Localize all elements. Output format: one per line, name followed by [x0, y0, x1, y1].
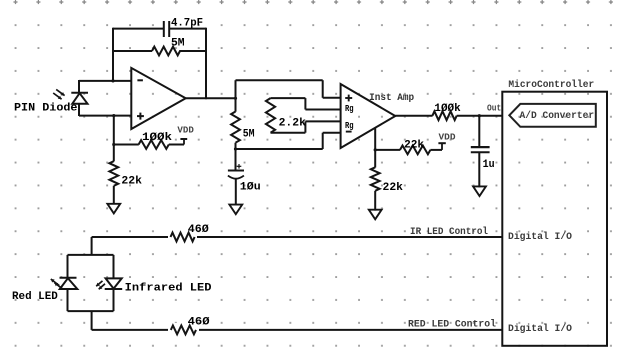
- svg-text:5M: 5M: [243, 129, 255, 141]
- svg-text:22k: 22k: [121, 176, 142, 188]
- svg-text:RED LED Control: RED LED Control: [408, 319, 496, 331]
- svg-text:Digital I/O: Digital I/O: [508, 323, 572, 335]
- svg-text:4.7pF: 4.7pF: [171, 17, 203, 29]
- svg-text:Red LED: Red LED: [12, 291, 58, 303]
- svg-text:VDD: VDD: [439, 132, 457, 142]
- svg-text:22k: 22k: [404, 139, 424, 151]
- svg-text:Rg: Rg: [345, 103, 354, 114]
- svg-text:IR LED Control: IR LED Control: [410, 226, 488, 238]
- svg-text:5M: 5M: [171, 37, 185, 49]
- svg-text:46Ø: 46Ø: [188, 224, 209, 236]
- svg-text:2.2k: 2.2k: [279, 118, 307, 130]
- svg-text:Out: Out: [487, 103, 501, 114]
- svg-text:MicroController: MicroController: [508, 79, 594, 91]
- svg-text:1ØØk: 1ØØk: [434, 103, 461, 115]
- svg-text:VDD: VDD: [177, 126, 194, 136]
- svg-text:22k: 22k: [383, 182, 404, 194]
- svg-text:Inst Amp: Inst Amp: [369, 93, 414, 104]
- svg-text:1ØØk: 1ØØk: [142, 132, 172, 144]
- svg-text:1Øu: 1Øu: [240, 181, 261, 193]
- svg-text:Infrared LED: Infrared LED: [125, 283, 212, 295]
- svg-text:A/D Converter: A/D Converter: [520, 110, 595, 122]
- svg-text:Digital I/O: Digital I/O: [508, 231, 572, 243]
- svg-text:Rg: Rg: [345, 120, 354, 131]
- svg-text:1u: 1u: [483, 159, 495, 171]
- svg-text:46Ø: 46Ø: [188, 316, 210, 328]
- svg-text:PIN Diode: PIN Diode: [14, 102, 78, 114]
